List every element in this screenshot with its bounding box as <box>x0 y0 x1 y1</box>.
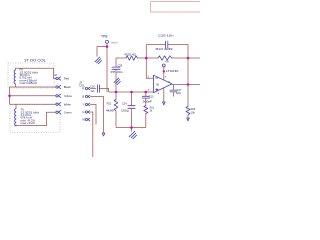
node rail C24 <box>130 91 133 94</box>
wire coil2 bottom to pin Green <box>16 112 56 125</box>
svg-text:B: B <box>82 95 84 99</box>
capacitor C27 100n <box>173 85 175 90</box>
ground sgnd2 on C26 line <box>114 78 120 85</box>
svg-text:G: G <box>82 110 84 114</box>
wire TPB down to rail <box>106 47 108 92</box>
svg-text:U5: U5 <box>156 83 160 87</box>
svg-text:100n: 100n <box>176 92 182 95</box>
TA coil L2 <box>15 109 16 127</box>
node rail C23 <box>145 91 148 94</box>
power terminal +9V <box>162 64 165 67</box>
svg-text:C24: C24 <box>122 103 127 106</box>
wire R25 to node B <box>138 57 147 59</box>
wire pin4 stub <box>163 88 165 102</box>
rail (+input net) <box>109 91 154 93</box>
arrow end pin B wire <box>102 133 105 136</box>
wire TPB to ground corner <box>97 47 107 57</box>
right rail down <box>187 58 189 107</box>
capacitor C25 10n <box>146 44 165 46</box>
pin Black <box>56 85 61 88</box>
svg-text:Red: Red <box>64 77 70 81</box>
capacitor C23 560pF <box>145 92 147 96</box>
wire pin B down <box>90 97 103 134</box>
wire pin G down <box>90 112 93 157</box>
dashed box TA coil <box>10 105 60 133</box>
capacitor C26 PP100n <box>115 58 117 67</box>
output wire pin6 <box>172 84 200 86</box>
svg-text:22n: 22n <box>91 90 96 93</box>
pin White <box>56 103 61 106</box>
node feedback right <box>187 57 190 60</box>
wire C26 to rail <box>115 70 117 93</box>
svg-text:C25 10n: C25 10n <box>158 33 174 37</box>
PU coil L1 <box>14 70 15 84</box>
wire coil1 bottom to junction <box>15 84 17 87</box>
resistor R21 2k <box>144 106 148 114</box>
svg-text:Y: Y <box>82 103 84 107</box>
sheet frame top-right (adjacent block) <box>151 2 201 13</box>
svg-text:R25 42: R25 42 <box>125 53 137 57</box>
svg-text:J2: J2 <box>54 73 57 77</box>
svg-text:100µ: 100µ <box>121 109 130 112</box>
svg-text:max +9.2V: max +9.2V <box>21 121 36 125</box>
svg-text:Black: Black <box>64 85 71 89</box>
capacitor C20 22n <box>97 85 99 92</box>
pin Green <box>56 111 61 114</box>
svg-text:W: W <box>82 118 85 122</box>
svg-text:Yellow: Yellow <box>110 40 118 44</box>
svg-text:PP100n: PP100n <box>111 71 124 74</box>
bottom rail <box>116 127 146 129</box>
svg-text:560pF: 560pF <box>143 100 153 103</box>
resistor R34 4k99 <box>146 57 158 59</box>
svg-text:C23: C23 <box>149 95 154 98</box>
node B <box>145 57 148 60</box>
wire pin R to C20 <box>90 88 96 90</box>
wire TPB stub <box>106 43 108 46</box>
svg-text:max=138mV: max=138mV <box>20 81 38 85</box>
svg-text:1T DO COL: 1T DO COL <box>24 58 46 62</box>
wire node A horizontal <box>116 57 126 59</box>
node TPB junction <box>106 45 109 48</box>
svg-text:TPB: TPB <box>101 34 108 38</box>
pin Yellow <box>56 94 61 97</box>
wire coil1 top to pin Red <box>16 68 56 78</box>
wire pin Black <box>10 87 56 96</box>
node rail R22 <box>115 91 118 94</box>
node junction dot <box>8 95 11 98</box>
ground sgnd3 <box>129 131 136 139</box>
node output <box>187 83 190 86</box>
wire C20 to rail <box>99 89 108 93</box>
resistor R26 10k <box>186 107 190 115</box>
resistor R25 42 <box>126 56 137 60</box>
svg-text:4k99: 4k99 <box>106 109 115 112</box>
wire pin Y down long <box>90 105 96 125</box>
resistor R22 4k99 <box>115 92 117 100</box>
svg-text:Yellow: Yellow <box>64 94 73 98</box>
svg-text:+9V: +9V <box>165 61 170 63</box>
dashed box PU coil <box>8 63 54 88</box>
svg-text:R22: R22 <box>107 103 112 106</box>
ground sgnd1 <box>95 57 101 64</box>
wire out to sheet right at y58 <box>188 57 200 59</box>
node bottom ground <box>130 126 133 129</box>
wire junction to pin Yellow <box>10 95 56 97</box>
feedback vertical to pin2 <box>146 45 153 79</box>
wire coil2 top to pin White <box>10 96 56 109</box>
svg-text:R34 4k99: R34 4k99 <box>156 47 174 51</box>
arrow ground R26 <box>187 118 190 121</box>
pin Red <box>56 77 61 80</box>
svg-text:C26: C26 <box>118 65 123 68</box>
capacitor C24 100u <box>131 92 133 106</box>
wire power stub pin7 <box>163 67 165 80</box>
op-amp U5 <box>154 75 173 92</box>
svg-text:C20: C20 <box>90 85 95 88</box>
svg-text:R: R <box>82 87 84 91</box>
svg-text:Green: Green <box>64 110 72 114</box>
svg-text:White: White <box>64 102 72 106</box>
svg-text:LT0230: LT0230 <box>166 69 179 73</box>
